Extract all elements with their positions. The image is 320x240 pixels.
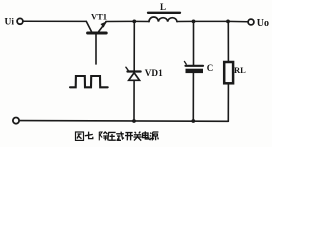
- terminal common (bottom-left): [13, 118, 19, 124]
- capacitor C: [184, 61, 203, 73]
- wire input to VT1 collector: [23, 20, 86, 22]
- wire node A down to diode: [133, 21, 135, 70]
- svg-text:RL: RL: [234, 65, 246, 75]
- node A junction dot (switch node): [132, 20, 136, 24]
- glyph 开: [125, 133, 133, 141]
- wire resistor to ground rail corner: [227, 83, 229, 121]
- glyph 关: [133, 132, 141, 141]
- svg-text:C: C: [207, 63, 214, 73]
- ground rail wire: [19, 120, 228, 123]
- wire node C to output terminal: [228, 20, 248, 22]
- base drive pulse waveform: [70, 76, 108, 87]
- glyph 压: [108, 132, 116, 140]
- svg-text:VD1: VD1: [145, 68, 163, 78]
- svg-text:VT1: VT1: [91, 11, 107, 21]
- junction dot diode-rail: [132, 119, 136, 123]
- svg-text:Uo: Uo: [257, 18, 269, 29]
- wire VT1 emitter to node A: [106, 20, 135, 22]
- svg-text:Ui: Ui: [5, 18, 15, 28]
- wire node B down to capacitor: [193, 21, 195, 64]
- transistor VT1: [86, 21, 107, 64]
- diode VD1: [126, 67, 141, 80]
- glyph 七: [85, 132, 93, 139]
- caption 图七 降压式开关电源 (drawn glyphs): [76, 131, 159, 140]
- node C junction dot (RL tap): [226, 20, 230, 24]
- glyph 降: [99, 132, 107, 141]
- svg-text:L: L: [160, 2, 166, 12]
- wire capacitor to ground rail: [192, 73, 194, 121]
- glyph 式: [116, 132, 124, 141]
- wire node A to inductor: [134, 20, 149, 22]
- glyph 源: [150, 132, 159, 140]
- wire node C down to resistor: [227, 21, 229, 62]
- junction dot capacitor-rail: [191, 119, 195, 123]
- terminal Uo: [248, 19, 254, 25]
- node B junction dot (C tap): [192, 20, 196, 24]
- terminal Ui: [17, 18, 23, 24]
- resistor RL: [224, 62, 233, 83]
- wire diode anode to ground rail: [133, 80, 135, 121]
- inductor L: [148, 13, 180, 22]
- glyph 图: [76, 132, 84, 140]
- glyph 电: [143, 131, 149, 139]
- wire node B to node C: [194, 20, 229, 22]
- wire inductor to node B: [177, 20, 194, 22]
